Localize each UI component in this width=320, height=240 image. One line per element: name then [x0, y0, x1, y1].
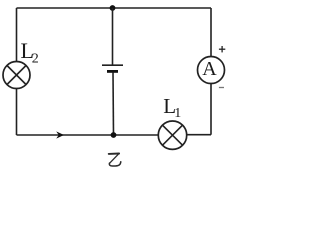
wire left lower (lamp L2 down to bottom wire)	[16, 89, 18, 136]
ammeter A	[198, 57, 225, 84]
wire left upper (corner down to lamp L2)	[16, 8, 18, 62]
wire top (from left corner to right corner)	[17, 7, 212, 9]
battery cell	[102, 65, 123, 71]
svg-text:2: 2	[32, 52, 39, 67]
wire right lower (bottom corner up to ammeter)	[210, 84, 212, 135]
current direction arrow	[56, 131, 64, 138]
wire right upper (ammeter up to top corner)	[210, 8, 212, 57]
wire bottom left (corner to lamp L1)	[17, 134, 159, 136]
label + (ammeter positive terminal)	[219, 46, 225, 52]
svg-text:A: A	[202, 58, 217, 80]
label 乙 (node name)	[109, 154, 121, 167]
lamp L2	[3, 62, 30, 89]
wire bottom right (lamp L1 to right corner)	[186, 134, 211, 136]
wire battery lower (battery down to bottom junction)	[112, 73, 115, 136]
lamp L1	[158, 121, 186, 149]
node (junction dot) on top wire	[110, 5, 116, 11]
label - (ammeter negative terminal)	[219, 87, 224, 89]
svg-text:1: 1	[174, 106, 181, 121]
wire battery upper (junction down to battery)	[112, 8, 114, 65]
node (junction dot) on bottom wire	[111, 132, 117, 138]
